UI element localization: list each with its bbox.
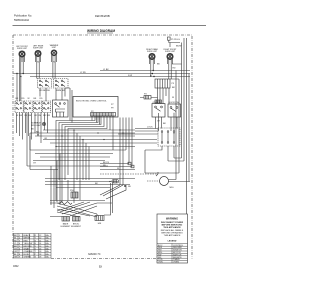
surface unit 1: [19, 51, 24, 56]
drawing number text: [88, 253, 101, 256]
door lock motor: [160, 177, 169, 186]
connector P1 wires: [169, 40, 180, 47]
center vertical harness: [74, 130, 89, 180]
footer date code: [13, 265, 19, 268]
bake connector label: [61, 223, 72, 228]
wire labels row above switch row B: [16, 98, 44, 100]
infinite switch row B box 2 (dashed): [24, 101, 32, 113]
legend table: [157, 244, 188, 264]
surface unit 4 label: [146, 48, 158, 53]
bus label N: [128, 75, 132, 77]
relay contact 1: [161, 131, 163, 143]
broil connector label: [71, 224, 82, 228]
svg-text:RD: RD: [103, 165, 107, 167]
EOC label: [76, 101, 107, 103]
header rule: [13, 24, 207, 26]
box 1 contacts: [17, 103, 20, 110]
infinite switch LR contacts: [40, 81, 49, 87]
svg-text:GRAY: GRAY: [24, 248, 30, 251]
svg-text:L2 RD: L2 RD: [80, 72, 86, 74]
connector P1: [168, 37, 171, 40]
svg-text:RD: RD: [36, 132, 40, 134]
wire from left border to mesh: [17, 74, 21, 102]
wires between right boxes and relay: [156, 117, 178, 134]
wire to small component: [140, 97, 158, 99]
infinite switch warmer (dashed box): [54, 79, 69, 89]
junction dots mesh: [55, 129, 123, 147]
surface unit 3: [52, 50, 57, 55]
bus label L2: [80, 72, 86, 74]
power bus N: [30, 76, 190, 78]
svg-text:ELEMENT: ELEMENT: [61, 226, 72, 228]
switch row B labels: [16, 115, 50, 117]
svg-text:BROWN: BROWN: [24, 246, 32, 248]
wire labels lower: [95, 183, 132, 188]
svg-text:Publication No.: Publication No.: [14, 14, 32, 18]
box 3 contacts: [35, 103, 38, 110]
right area connector box: [155, 79, 170, 88]
horizontal wires at diagonals: [50, 201, 112, 217]
right vertical harness wires: [168, 38, 189, 214]
vertical wires left of diagonals: [51, 154, 60, 209]
svg-text:LOCK: LOCK: [147, 127, 153, 129]
title underline: [87, 32, 113, 34]
small component left of cluster: [144, 96, 151, 100]
surface unit 2 wire label: [36, 62, 40, 64]
svg-text:N W: N W: [128, 75, 132, 77]
right of EOC vertical wires: [120, 118, 132, 186]
svg-text:RD: RD: [173, 68, 177, 70]
svg-text:IND LIGHT: IND LIGHT: [31, 125, 42, 127]
svg-text:0302: 0302: [13, 265, 19, 268]
svg-text:W: W: [117, 168, 119, 170]
oven light switch label: [153, 102, 162, 104]
relay contact 2: [167, 131, 169, 143]
surface unit 5 wire label: [173, 68, 177, 70]
infinite switch row B box 4 (dashed): [43, 101, 51, 113]
svg-text:OVEN LT: OVEN LT: [153, 102, 162, 104]
svg-text:OVEN: OVEN: [173, 262, 179, 264]
svg-text:THIS APPLIANCE: THIS APPLIANCE: [163, 226, 181, 229]
svg-text:W: W: [28, 98, 30, 100]
legend entries: [158, 245, 184, 264]
surface indicator light label: [31, 122, 42, 128]
wires from switch row A down: [40, 88, 72, 123]
oven selector switch box: [53, 100, 69, 117]
svg-text:WHITE: WHITE: [24, 238, 31, 240]
surface unit 5 label: [164, 49, 178, 53]
svg-text:W: W: [14, 238, 16, 240]
svg-text:3A8200 7C: 3A8200 7C: [88, 253, 101, 256]
svg-text:THIS APPLIANCE: THIS APPLIANCE: [164, 234, 181, 237]
bus label L1: [103, 69, 109, 71]
svg-text:SURF UNIT: SURF UNIT: [165, 51, 176, 53]
svg-text:SURF UNIT: SURF UNIT: [33, 48, 44, 50]
wires from mesh bottom to diagonals: [56, 180, 80, 203]
svg-text:ELECTRONIC OVEN CONTROL: ELECTRONIC OVEN CONTROL: [76, 101, 107, 103]
rear connector: [95, 216, 104, 221]
infinite switch LR (dashed box): [38, 79, 52, 89]
svg-text:RR SW: RR SW: [43, 115, 50, 117]
motor label: [170, 187, 175, 189]
surface unit 3 wires: [52, 55, 57, 79]
infinite switch warmer contacts: [56, 81, 65, 87]
infinite switch warmer label: [56, 90, 65, 92]
lock relay label: [147, 127, 153, 129]
svg-text:L1 BK: L1 BK: [103, 69, 109, 71]
svg-text:WIRING DIAGRAM: WIRING DIAGRAM: [87, 29, 115, 33]
svg-text:DOOR SW: DOOR SW: [169, 102, 179, 104]
broil connector: [73, 217, 81, 222]
dash wire end hook: [156, 172, 158, 176]
connector box label: [70, 190, 75, 192]
svg-text:SURF UNIT: SURF UNIT: [17, 48, 28, 50]
warning title: [166, 218, 178, 221]
svg-text:WRM SW: WRM SW: [56, 90, 65, 92]
surface unit 5 wires: [168, 59, 173, 79]
oven sensor element: [112, 180, 119, 184]
wire label BK-W: [176, 46, 181, 48]
header model number text: [95, 14, 110, 18]
lock relay dashed box: [158, 128, 180, 146]
connector box above diagonals: [71, 192, 78, 198]
svg-text:RED: RED: [24, 240, 29, 242]
infinite switch row B box 3 (dashed): [34, 101, 42, 113]
svg-text:WARNING: WARNING: [166, 218, 178, 221]
warning box: [157, 214, 188, 263]
small component label: [144, 94, 147, 96]
surface unit 4 wires: [150, 59, 155, 76]
relay wires down: [145, 146, 174, 153]
surface indicator light: [42, 122, 45, 125]
left lower wires: [27, 113, 108, 170]
motor approach dash wire: [147, 180, 160, 182]
svg-text:ELEMENT: ELEMENT: [71, 226, 82, 228]
right connector box label: [172, 83, 176, 99]
box 4 contacts: [44, 103, 47, 110]
svg-text:OVN: OVN: [158, 262, 163, 264]
wire color code table: [14, 234, 52, 259]
surface unit 1 label: [16, 46, 28, 50]
svg-text:RD: RD: [40, 98, 44, 100]
electronic oven control box: [73, 97, 118, 118]
surface unit 2: [35, 51, 40, 56]
bus junction dots: [16, 70, 154, 77]
wire label P4: [33, 163, 37, 165]
lower stub wires with labels: [100, 164, 135, 170]
diagonal feeder wires: [100, 185, 126, 199]
left mesh horizontal wires: [30, 130, 157, 147]
svg-text:LR INF SW: LR INF SW: [39, 90, 50, 92]
svg-text:FEF354A5B: FEF354A5B: [95, 14, 110, 18]
left mesh wire labels: [31, 129, 48, 141]
motor wires: [169, 71, 191, 182]
wires from switch row B down to left mesh: [17, 113, 48, 144]
surface unit 3 label: [50, 44, 59, 49]
svg-text:5995344442: 5995344442: [14, 18, 29, 22]
footer page number: [99, 266, 102, 269]
svg-text:P1 PLUG: P1 PLUG: [171, 39, 180, 41]
svg-text:BK P6: BK P6: [103, 162, 110, 164]
svg-text:RD: RD: [22, 98, 26, 100]
rear connector label: [98, 223, 102, 225]
stub end connectors: [128, 162, 131, 165]
oven light switch contacts: [155, 106, 163, 108]
diagonal wire crossing bundle: [57, 202, 97, 217]
table text entries: [14, 234, 49, 259]
infinite switch LR label: [39, 90, 50, 92]
svg-text:LEGEND: LEGEND: [168, 241, 177, 243]
power bus L2: [14, 73, 191, 75]
svg-text:RD: RD: [36, 62, 40, 64]
junction dot lower: [109, 181, 126, 187]
EOC pin wires with jogs to bundle: [56, 116, 113, 180]
svg-text:BLUE: BLUE: [24, 254, 30, 256]
svg-text:HSI: HSI: [98, 223, 102, 225]
svg-text:RD: RD: [14, 240, 18, 242]
svg-text:BK/W: BK/W: [176, 46, 181, 48]
svg-text:W: W: [172, 97, 174, 99]
EOC pin strip: [91, 113, 116, 117]
svg-text:RD: RD: [128, 186, 132, 188]
svg-text:OR: OR: [14, 251, 18, 253]
svg-text:GN: GN: [14, 257, 18, 259]
svg-text:OR: OR: [44, 138, 48, 140]
surface unit 2 wires: [36, 56, 41, 79]
surface unit 4: [149, 54, 154, 59]
relay contact 3: [173, 131, 175, 143]
title WIRING DIAGRAM: [87, 29, 115, 33]
box 2 contacts: [26, 103, 29, 110]
bake element zigzag: [60, 202, 72, 205]
surface unit 3 wire label: [53, 62, 56, 64]
chassis dash wire: [100, 173, 158, 175]
svg-text:ORANGE: ORANGE: [24, 250, 34, 253]
infinite switch row B box 1 (dashed): [15, 101, 23, 113]
EOC pin strip label: [91, 111, 94, 113]
lower horizontal wires: [45, 179, 135, 188]
wires below right connector: [158, 88, 170, 104]
door switch box: [168, 104, 181, 117]
right harness bend wires: [160, 64, 182, 173]
warning text lines: [161, 222, 184, 237]
cabinet dash-dot border: [13, 35, 192, 259]
svg-text:GREEN: GREEN: [24, 257, 32, 259]
surface unit 5: [167, 54, 172, 59]
door switch contacts: [170, 107, 178, 109]
door switch label: [169, 102, 179, 104]
connector P1 label: [171, 39, 180, 41]
legend title: [168, 241, 177, 243]
oven light switch box: [152, 104, 165, 118]
surface unit 1 wires: [20, 56, 25, 101]
surface unit 4 wire label: [157, 64, 160, 66]
EOC side labels: [111, 104, 114, 110]
label TBD: [157, 121, 166, 126]
header publication number text: [14, 14, 32, 23]
wires right side to motor: [145, 150, 174, 173]
svg-text:W: W: [37, 135, 39, 137]
wire down right of diagonals: [97, 183, 113, 216]
mid horizontal wires row: [30, 133, 126, 157]
right horizontal wires into relay area: [118, 129, 158, 135]
svg-text:BR: BR: [14, 246, 17, 248]
second small component: [155, 100, 162, 103]
surface unit 2 label: [33, 45, 44, 50]
svg-text:BLACK: BLACK: [24, 234, 31, 237]
svg-text:YELLOW: YELLOW: [24, 243, 33, 245]
power bus L1: [100, 70, 190, 72]
svg-text:SURF UNIT: SURF UNIT: [147, 51, 158, 53]
bake connector: [62, 217, 70, 222]
